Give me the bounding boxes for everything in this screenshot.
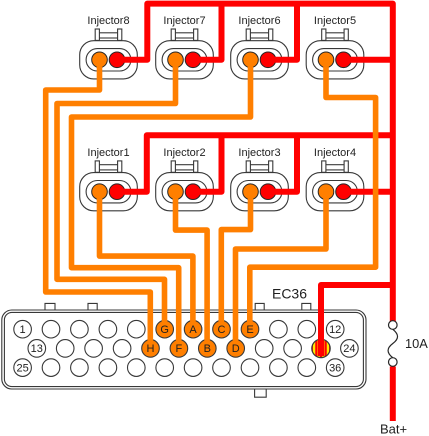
EC36 injector signal pins G A C E (row1) bbox=[156, 320, 259, 338]
svg-text:Injector3: Injector3 bbox=[238, 147, 280, 159]
svg-text:Injector7: Injector7 bbox=[163, 15, 205, 27]
wire orange Injector7 to pin G bbox=[57, 60, 176, 329]
svg-text:Injector2: Injector2 bbox=[163, 147, 205, 159]
wire red branch to EC36 pin 23 bbox=[321, 285, 393, 356]
svg-text:13: 13 bbox=[31, 343, 43, 355]
svg-text:Injector1: Injector1 bbox=[87, 147, 129, 159]
injector connector Injector3 bbox=[231, 147, 289, 211]
svg-text:12: 12 bbox=[329, 324, 341, 336]
injector connector Injector4 bbox=[306, 147, 364, 211]
injector connector Injector1 bbox=[80, 147, 138, 211]
wire orange Injector6 to pin F bbox=[72, 60, 251, 349]
EC36 pin holes rows 1-3 bbox=[14, 320, 358, 376]
wire orange Injector8 to pin H bbox=[46, 60, 151, 349]
EC36 injector signal pins H F B D (row2) bbox=[142, 340, 245, 358]
svg-text:G: G bbox=[160, 324, 169, 336]
wire red Injector4 to supply bbox=[344, 189, 393, 195]
svg-text:A: A bbox=[189, 324, 197, 336]
fuse F1 10A bbox=[388, 321, 397, 367]
svg-text:Injector6: Injector6 bbox=[238, 15, 280, 27]
EC36 power pin 23 (red/yellow striped) bbox=[311, 338, 332, 358]
EC36 pin letters bbox=[147, 324, 254, 355]
svg-text:10A: 10A bbox=[405, 336, 428, 351]
wire orange Injector3 to pin C bbox=[221, 192, 250, 330]
wire orange Injector5 to pin E bbox=[250, 60, 376, 329]
injector connector Injector6 bbox=[231, 15, 289, 79]
injector connector Injector2 bbox=[156, 147, 214, 211]
wire red supply bus middle row (Injector1/2/3/4) bbox=[117, 135, 393, 192]
EC36 pin numbers bbox=[16, 324, 355, 374]
wire red Injector2 to middle bus bbox=[193, 135, 222, 192]
svg-text:B: B bbox=[204, 343, 211, 355]
svg-text:Injector5: Injector5 bbox=[314, 15, 356, 27]
wire red Injector3 to middle bus bbox=[268, 135, 297, 192]
svg-text:H: H bbox=[147, 343, 155, 355]
svg-text:Injector4: Injector4 bbox=[314, 147, 356, 159]
wire red Injector7 to top bus bbox=[193, 4, 222, 60]
wire red supply bus top row (Injector8/7/6/5) to fuse bbox=[117, 4, 393, 322]
wire orange Injector2 to pin B bbox=[176, 192, 208, 349]
wire orange Injector1 to pin A bbox=[100, 192, 193, 330]
svg-text:25: 25 bbox=[16, 362, 28, 374]
connector EC36 body bbox=[2, 303, 366, 397]
svg-text:24: 24 bbox=[343, 343, 355, 355]
svg-text:Injector8: Injector8 bbox=[87, 15, 129, 27]
wire orange Injector4 to pin D bbox=[236, 192, 327, 349]
wire red fuse to Bat+ bbox=[390, 367, 396, 422]
svg-text:1: 1 bbox=[20, 324, 26, 336]
svg-text:C: C bbox=[218, 324, 226, 336]
injector connector Injector7 bbox=[156, 15, 214, 79]
svg-text:EC36: EC36 bbox=[272, 286, 307, 302]
svg-text:36: 36 bbox=[329, 362, 341, 374]
injector connector Injector8 bbox=[80, 15, 138, 79]
svg-text:E: E bbox=[246, 324, 253, 336]
wire red Injector6 to top bus bbox=[268, 4, 297, 60]
svg-text:F: F bbox=[176, 343, 183, 355]
svg-text:D: D bbox=[232, 343, 240, 355]
svg-text:Bat+: Bat+ bbox=[380, 422, 407, 436]
injector connector Injector5 bbox=[306, 15, 364, 79]
wire red Injector5 to supply bbox=[344, 57, 393, 63]
